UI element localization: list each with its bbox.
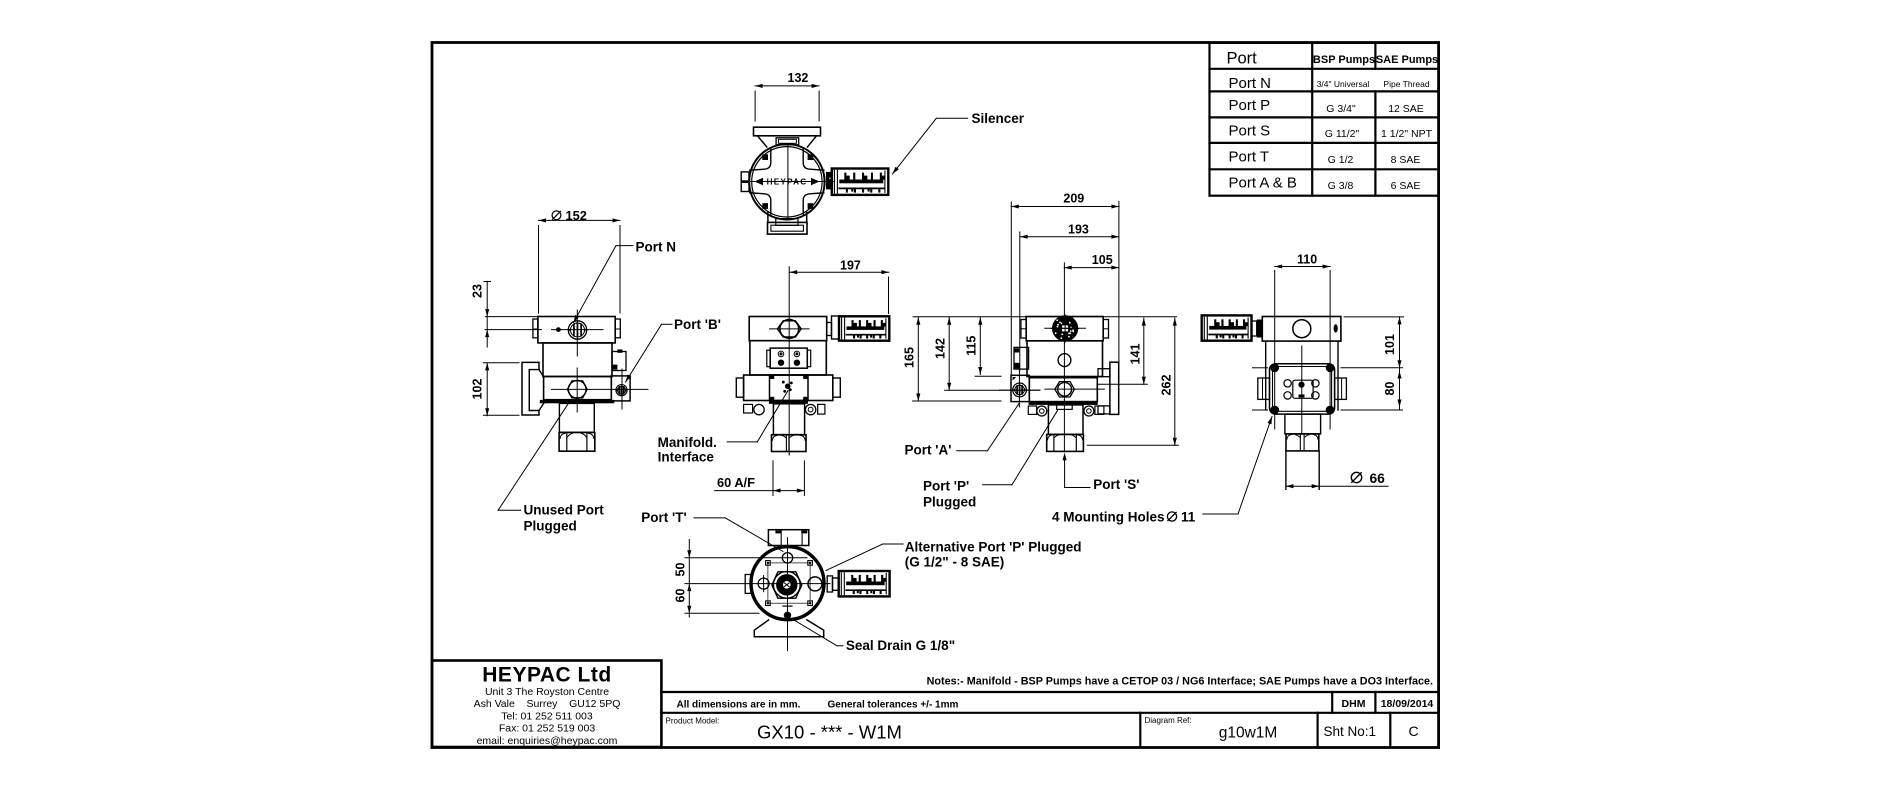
svg-text:GX10 - *** - W1M: GX10 - *** - W1M [757,722,902,743]
svg-text:Port T: Port T [1229,149,1270,166]
rear view shaft hex [1055,382,1075,397]
title block line above model row [661,712,1438,714]
svg-text:SAE Pumps: SAE Pumps [1376,54,1438,66]
Port N leader line [616,245,633,247]
svg-text:G 1/2: G 1/2 [1328,154,1354,166]
rear view suction neck [1048,405,1083,435]
rear view pump lower body [1029,378,1097,402]
bottom view bolt square pattern [768,563,810,603]
front view CETOP gauge plate [770,348,807,368]
svg-text:DHM: DHM [1342,698,1366,710]
top view suction flange plate [768,222,808,234]
rear view dim 209 line [1011,206,1119,208]
end view body sides [1265,341,1267,410]
svg-text:110: 110 [1297,253,1317,267]
Port T leader line [694,517,725,519]
bottom view silencer [827,576,832,592]
side view suction hex nut [559,433,595,452]
bottom view left tab [745,575,751,594]
svg-text:Tel: 01 252 511 003: Tel: 01 252 511 003 [501,710,593,722]
front view port N hex plug [777,321,801,337]
svg-text:HEYPAC Ltd: HEYPAC Ltd [482,664,611,687]
alternative port leader line [883,543,903,545]
bottom view centerlines [787,538,789,651]
front view motor cap [749,317,827,341]
svg-text:Ash Vale Surrey GU12 5PQ: Ash Vale Surrey GU12 5PQ [474,698,621,710]
bottom view port T extension line [685,557,807,559]
top view suction neck [767,213,769,223]
top view discharge flange plate [754,127,821,136]
end view mounting plate [1270,364,1335,414]
svg-text:23: 23 [471,284,485,298]
front view vertical centerline [788,267,790,455]
front view dim 197 line [790,271,889,273]
end view DO3 interface pattern [1293,380,1313,398]
front view silencer [839,316,889,340]
end view silencer [1202,315,1252,340]
svg-text:3/4" Universal: 3/4" Universal [1317,79,1370,89]
drawing sheet frame [432,43,1439,748]
manifold leader line [727,441,757,443]
rear view cap side tabs [1021,320,1026,339]
side view dim 23 line and arrows [486,281,488,347]
top view dim 132 line [755,85,819,87]
side view unused port hex plug [567,381,587,398]
rear view port P plug under body [1057,405,1073,410]
bottom view shaft assembly [773,571,800,598]
front view mid body [750,341,826,375]
end view side tabs [1258,378,1270,399]
Port P leader line [983,484,1012,486]
svg-text:Port 'T': Port 'T' [641,510,686,525]
svg-text:Pipe Thread: Pipe Thread [1383,79,1429,89]
side view interface plate thick edge [540,400,615,403]
svg-text:email: enquiries@heypac.com: email: enquiries@heypac.com [477,735,618,747]
top view flange neck slants [758,136,767,147]
svg-text:60 A/F: 60 A/F [717,475,755,490]
rear view port A elbow bracket [1014,347,1029,369]
issue cell [1389,713,1391,747]
svg-text:115: 115 [965,336,979,356]
svg-text:66: 66 [1370,471,1386,486]
sheet no cell [1316,713,1318,747]
top view silencer [826,172,832,190]
svg-text:141: 141 [1129,344,1143,365]
svg-text:Unused Port: Unused Port [524,503,605,518]
svg-text:(G 1/2" - 8 SAE): (G 1/2" - 8 SAE) [905,555,1004,570]
front view DO3 manifold face [770,375,809,401]
svg-text:12 SAE: 12 SAE [1388,103,1424,115]
svg-text:60: 60 [674,589,688,603]
rear view mounting flange [1110,362,1119,414]
side view dim dia152 line [539,219,621,221]
title block line under notes [661,691,1438,693]
top view embossed HEYPAC lettering [755,178,764,185]
svg-text:Unit 3 The Royston Centre: Unit 3 The Royston Centre [485,686,609,698]
front view clamp bolt right [805,404,815,414]
rear view Port N knurled plug [1053,316,1078,341]
rear view mid body [1027,341,1103,377]
svg-text:Interface: Interface [658,450,715,465]
svg-text:4 Mounting Holes: 4 Mounting Holes [1052,510,1165,525]
svg-text:Fax: 01 252 519 003: Fax: 01 252 519 003 [499,723,595,735]
seal drain leader line [837,645,843,647]
rear view dim extension lines [1010,202,1012,376]
side view port B elbow bracket [612,352,626,371]
svg-text:Port A & B: Port A & B [1229,175,1297,192]
svg-text:Diagram Ref:: Diagram Ref: [1145,716,1192,725]
silencer leader line [936,117,967,119]
svg-text:6 SAE: 6 SAE [1391,180,1421,192]
side view cap side tabs [533,319,538,338]
svg-text:G 11/2": G 11/2" [1325,128,1360,140]
bottom view Port T circle [782,553,792,563]
svg-text:C: C [1408,723,1418,739]
svg-text:Port 'P': Port 'P' [923,479,969,494]
bottom view seal drain port [784,612,790,618]
top view centerlines [787,145,789,219]
svg-text:11: 11 [1181,510,1196,525]
svg-text:Port N: Port N [1229,75,1272,92]
svg-text:g10w1M: g10w1M [1219,725,1278,742]
side view mounting flange profile [529,370,544,411]
svg-text:Sht No:1: Sht No:1 [1324,724,1377,739]
front view manifold port dots [785,384,790,389]
rear view dim 193 line [1020,236,1119,238]
front view suction hex nut [772,435,807,452]
front view CETOP plate bolts [778,351,784,357]
front view 60 A/F dim line [772,461,774,496]
bottom view dim line and arrows [688,540,690,618]
end view suction neck [1285,414,1321,434]
side view mid body [543,343,612,377]
front view pump lower body [744,375,833,401]
rear view Port A block [1011,375,1029,401]
top view flange slot [776,138,799,145]
front view body end caps [736,378,743,397]
diagram ref cell [1139,713,1141,747]
svg-text:Port N: Port N [636,240,677,255]
side view dim 102 line and arrows [486,363,488,416]
side view lower body [544,377,612,400]
svg-text:Alternative Port 'P' Plugged: Alternative Port 'P' Plugged [905,540,1082,555]
port table column line 1 [1311,43,1313,196]
svg-text:Port: Port [1227,50,1258,68]
svg-text:209: 209 [1063,192,1084,206]
svg-text:Plugged: Plugged [923,495,976,510]
svg-text:80: 80 [1383,382,1397,396]
bottom view seal drain extension line [685,612,759,614]
bottom view pump barrel circle [751,547,824,620]
side view small port dot [557,328,561,332]
svg-text:18/09/2014: 18/09/2014 [1381,698,1434,710]
svg-text:HEYPAC: HEYPAC [767,178,808,187]
top view left port tabs [741,172,749,181]
svg-text:Product Model:: Product Model: [666,717,720,726]
svg-text:Notes:- Manifold - BSP Pumps: Notes:- Manifold - BSP Pumps have a CETO… [927,676,1433,688]
svg-text:G 3/8: G 3/8 [1328,180,1354,192]
front view CETOP gauge plate rails [767,350,770,367]
top view suction slot [776,219,798,226]
front view clamp bolt left [744,404,753,413]
svg-text:Manifold.: Manifold. [658,435,717,450]
svg-text:102: 102 [471,379,485,400]
side view lower centerlines [552,388,649,390]
svg-text:Port P: Port P [1229,97,1271,114]
end view suction hex nut [1286,434,1319,451]
rear view interface plate thick edge [1029,402,1098,405]
rear view vertical centerline [1063,263,1065,452]
front view silencer nipple [827,323,832,336]
svg-text:Silencer: Silencer [972,111,1025,126]
bottom view alternative port P circle [808,577,822,591]
side view Port N knurled plug [568,321,586,339]
svg-text:132: 132 [788,71,809,85]
side view port N centerlines [576,310,578,356]
svg-text:1 1/2" NPT: 1 1/2" NPT [1381,128,1433,140]
rear view top reference extension line [913,316,1177,318]
port table column line 2 (BSP/SAE, skips merged Port N row) [1374,43,1376,69]
side view motor cap [538,317,615,343]
svg-text:142: 142 [934,338,948,359]
end view mounting hole horizontal centerlines [1253,367,1268,369]
mounting holes leader line [1203,513,1238,515]
svg-text:BSP Pumps: BSP Pumps [1313,54,1375,66]
port size table outline [1210,43,1439,196]
bottom view discharge flange [768,530,808,546]
port table row lines [1210,68,1439,70]
bottom view base flange [754,620,823,637]
svg-text:Port 'S': Port 'S' [1093,477,1139,492]
svg-text:193: 193 [1068,223,1089,237]
svg-text:105: 105 [1092,253,1113,267]
front view suction neck [773,404,804,435]
svg-text:262: 262 [1160,375,1174,396]
side view suction neck [559,403,594,432]
rear view clamp bolt right [1084,406,1094,416]
Port B leader line [662,323,673,325]
end view vertical centerline [1301,346,1303,433]
svg-text:Plugged: Plugged [524,519,577,534]
svg-text:Port 'B': Port 'B' [674,317,721,332]
end view motor cap [1262,317,1341,342]
bottom view shaft hex [772,572,802,598]
svg-text:General tolerances +/- 1mm: General tolerances +/- 1mm [828,700,959,711]
svg-text:All dimensions are in mm.: All dimensions are in mm. [677,700,801,711]
end view dim 110 line [1275,266,1330,268]
rear view clamp bolt left [1028,406,1036,414]
end view breather circle [1293,320,1311,338]
rear view alternative port P plug circle [1058,354,1071,367]
svg-text:165: 165 [903,347,917,368]
svg-text:Seal Drain G 1/8": Seal Drain G 1/8" [846,638,955,653]
svg-text:50: 50 [674,563,688,577]
end view suction pipe [1285,451,1287,489]
top view pump body circle [749,144,824,219]
svg-text:101: 101 [1383,334,1397,355]
Port A leader line [957,450,988,452]
bottom view left port circle [758,578,769,589]
end view port B plug edge [1334,324,1338,332]
end view mounting bolts [1271,364,1279,372]
top view cover bolts [762,154,768,160]
unused port leader line [498,509,520,511]
side view Port B block [611,376,630,401]
end view mounting hole vertical centerlines [1274,271,1276,430]
svg-text:G 3/4": G 3/4" [1326,103,1356,115]
svg-text:Port 'A': Port 'A' [905,443,952,458]
svg-text:197: 197 [840,259,861,273]
Port S leader arrow [1063,453,1067,461]
rear view dim 105 line [1064,267,1119,269]
side view dim dia152 text [552,211,561,220]
rear view suction hex nut [1047,434,1084,451]
svg-text:8 SAE: 8 SAE [1391,154,1421,166]
top view casting cross outline [750,149,771,170]
svg-text:Port S: Port S [1229,122,1271,139]
title block HEYPAC logo box [432,661,661,748]
front view interface plate thick edge [769,401,808,404]
rear view motor cap [1026,317,1103,341]
end view dim dia66 [1286,485,1388,487]
tolerances row dividers / DHM / date [1331,692,1333,713]
